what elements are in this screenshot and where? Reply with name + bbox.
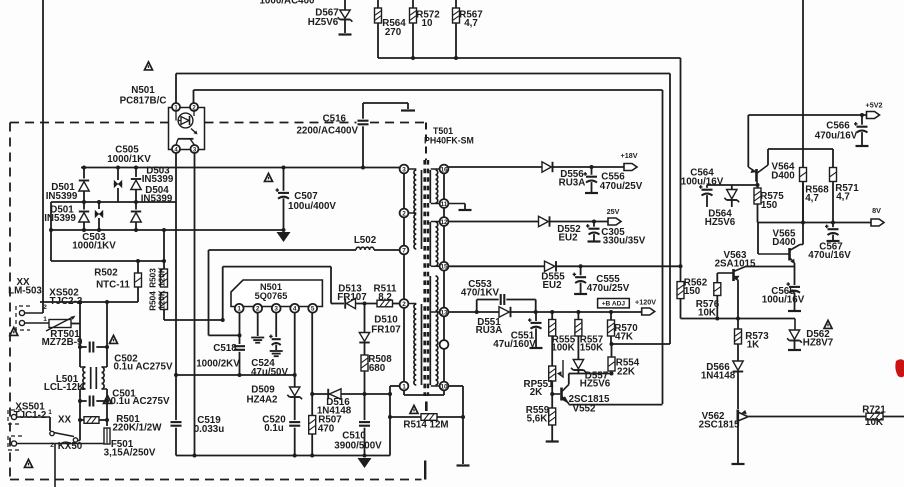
- transformer pin 15: [431, 265, 444, 267]
- diode D504: [131, 213, 141, 222]
- diode D556: [542, 162, 551, 172]
- svg-text:EU2: EU2: [542, 280, 562, 291]
- wire: [176, 374, 295, 376]
- svg-text:HZ5V6: HZ5V6: [580, 379, 611, 390]
- wire: [551, 381, 553, 408]
- wire: [50, 202, 52, 261]
- wire: [412, 23, 414, 58]
- svg-text:47u/160V: 47u/160V: [493, 339, 536, 350]
- svg-text:N501: N501: [131, 85, 155, 96]
- capacitor C524: [272, 338, 281, 340]
- warning triangle: [24, 459, 32, 467]
- svg-text:R503: R503: [149, 268, 158, 288]
- svg-text:R502: R502: [94, 268, 118, 279]
- wire +B line: [448, 311, 476, 313]
- wire: [51, 260, 164, 262]
- svg-text:IN5399: IN5399: [46, 191, 78, 202]
- wire AC node: [51, 201, 176, 203]
- resistor R570: [610, 312, 612, 320]
- resistor R514: [421, 414, 437, 421]
- transformer pin 1: [400, 382, 409, 391]
- resistor R504: [161, 293, 168, 310]
- svg-text:KX50: KX50: [58, 441, 83, 452]
- svg-text:11: 11: [441, 201, 448, 208]
- svg-text:+B ADJ: +B ADJ: [602, 301, 626, 308]
- wire: [54, 444, 56, 487]
- wire opto pin3 down: [194, 153, 196, 456]
- wire: [577, 370, 579, 374]
- wire: [577, 336, 579, 360]
- resistor R567: [453, 8, 460, 23]
- diode D501: [83, 168, 85, 179]
- svg-text:220K/1/2W: 220K/1/2W: [112, 423, 162, 434]
- svg-text:470u/25V: 470u/25V: [587, 283, 630, 294]
- wire: [737, 424, 739, 464]
- svg-text:4,7: 4,7: [836, 192, 850, 203]
- wire: [294, 397, 296, 420]
- wire: [17, 416, 50, 418]
- wire: [363, 102, 408, 104]
- wire 25V line: [448, 221, 538, 223]
- resistor R721: [866, 413, 883, 420]
- terminal +5V2: [867, 112, 880, 119]
- svg-text:3: 3: [274, 306, 278, 313]
- transformer pin 10: [431, 385, 444, 387]
- wire: [356, 303, 378, 305]
- wire below transformer: [390, 385, 400, 387]
- svg-text:150: 150: [761, 200, 778, 211]
- wire loop outer: [208, 250, 210, 335]
- warning triangle: [103, 395, 111, 403]
- capacitor C507: [283, 168, 285, 191]
- wire V563 emitter: [737, 281, 739, 330]
- resistor R573: [735, 329, 742, 344]
- wire: [40, 301, 138, 303]
- svg-text:D400: D400: [772, 237, 796, 248]
- svg-text:T501: T501: [433, 126, 453, 136]
- wire: [71, 323, 80, 325]
- svg-text:C516: C516: [323, 114, 347, 125]
- wire +18V line: [448, 166, 542, 168]
- wire: [163, 230, 165, 269]
- wire pin column left: [403, 169, 405, 386]
- wire primary ground bus: [176, 455, 390, 457]
- svg-text:1000/2KV: 1000/2KV: [196, 359, 240, 370]
- svg-text:MZ72B-9: MZ72B-9: [42, 337, 83, 348]
- svg-text:12: 12: [440, 219, 448, 226]
- warning triangle: [264, 173, 272, 181]
- svg-text:47u/50V: 47u/50V: [251, 367, 289, 378]
- terminal 25V: [608, 218, 621, 225]
- svg-text:1: 1: [43, 316, 47, 323]
- wire: [794, 341, 796, 350]
- svg-text:16: 16: [440, 166, 448, 173]
- svg-text:120K: 120K: [158, 267, 167, 287]
- wire: [746, 266, 795, 268]
- wire +5V2 line: [748, 114, 866, 116]
- resistor R508: [361, 355, 368, 371]
- zener D567: [340, 10, 350, 18]
- svg-text:0.1u: 0.1u: [264, 423, 284, 434]
- svg-text:3: 3: [402, 166, 406, 173]
- wire: [331, 303, 344, 305]
- svg-text:1: 1: [48, 409, 52, 416]
- transistor V565: [788, 248, 791, 261]
- svg-text:HZ4A2: HZ4A2: [246, 395, 278, 406]
- wire: [344, 20, 346, 34]
- svg-text:FR107: FR107: [371, 325, 401, 336]
- wire: [78, 440, 80, 442]
- transformer pin 13: [431, 311, 444, 313]
- capacitor C502: [80, 346, 87, 348]
- svg-text:1K: 1K: [747, 340, 760, 351]
- wire from opto pin2: [193, 90, 195, 103]
- svg-text:2: 2: [402, 210, 406, 217]
- diode D566: [733, 361, 743, 370]
- capacitor C555: [580, 266, 582, 275]
- resistor R503: [161, 269, 168, 287]
- isolation boundary dashed border: [9, 123, 11, 478]
- wire: [551, 425, 553, 441]
- fuse F501: [104, 428, 110, 444]
- wire: [681, 318, 796, 320]
- wire pin5: [311, 313, 313, 394]
- wire right filter rail: [106, 302, 108, 367]
- wire: [83, 191, 85, 210]
- svg-text:150: 150: [684, 286, 701, 297]
- svg-text:RU3A: RU3A: [476, 325, 503, 336]
- svg-text:NTC-11: NTC-11: [96, 280, 130, 291]
- capacitor C305: [593, 222, 595, 227]
- resistor R507: [311, 394, 313, 416]
- capacitor C565: [794, 267, 796, 286]
- svg-text:PH40FK-SM: PH40FK-SM: [424, 136, 474, 146]
- svg-text:0.1u AC275V: 0.1u AC275V: [114, 362, 173, 373]
- wire R721 line: [748, 416, 867, 418]
- svg-text:2SA1015: 2SA1015: [715, 259, 756, 270]
- svg-text:22K: 22K: [617, 367, 635, 378]
- ground near pin11: [448, 203, 465, 205]
- wire pin2: [257, 313, 259, 336]
- wire pin column right: [443, 169, 445, 386]
- wire: [42, 0, 44, 313]
- resistor R562: [680, 266, 682, 281]
- svg-text:10K: 10K: [698, 308, 716, 319]
- wire left filter rail: [79, 302, 81, 367]
- ground: [358, 458, 372, 468]
- warning triangle: [824, 320, 832, 328]
- capacitor C566: [861, 115, 863, 125]
- wire: [802, 182, 804, 245]
- svg-text:2: 2: [43, 304, 47, 311]
- svg-text:5,6K: 5,6K: [527, 414, 548, 425]
- wire: [364, 371, 366, 394]
- line filter L501 LCL-12K: [80, 366, 86, 368]
- red annotation mark: [895, 359, 904, 377]
- svg-text:HZ5V6: HZ5V6: [308, 17, 339, 28]
- wire: [511, 311, 642, 313]
- resistor R502 NTC: [137, 261, 139, 273]
- svg-text:10: 10: [422, 18, 433, 29]
- wire: [17, 443, 107, 445]
- svg-text:D400: D400: [771, 171, 795, 182]
- svg-text:R721: R721: [862, 405, 886, 416]
- transistor V563 2SA1015: [717, 272, 732, 274]
- transformer pin 3: [404, 168, 416, 170]
- svg-text:680: 680: [369, 363, 386, 374]
- wire: [553, 166, 625, 168]
- diode D551: [477, 311, 499, 313]
- wire from opto pin1: [175, 74, 177, 104]
- IC N501 5Q0765: [231, 280, 322, 307]
- wire: [330, 267, 332, 304]
- resistor R564: [375, 8, 382, 23]
- transformer pin 14: [440, 340, 449, 349]
- capacitor C501: [80, 400, 87, 402]
- thermistor RT501: [49, 320, 71, 328]
- wire: [737, 344, 739, 361]
- wire D555 line: [448, 265, 544, 267]
- transistor V562: [736, 410, 739, 425]
- wire V564 base: [707, 184, 758, 186]
- transformer pin 11: [431, 203, 444, 205]
- inductor L502: [356, 247, 374, 250]
- svg-text:100K: 100K: [551, 343, 574, 354]
- optocoupler N501 PC817B/C: [169, 108, 205, 150]
- svg-text:10K: 10K: [865, 417, 883, 428]
- warning triangle: [109, 335, 117, 343]
- resistor R554: [611, 344, 613, 357]
- diode D513: [346, 298, 355, 308]
- warning triangle: [10, 327, 18, 335]
- svg-text:R514 12M: R514 12M: [403, 420, 448, 431]
- transformer secondary winding: [436, 170, 438, 203]
- svg-text:+120V: +120V: [635, 298, 656, 307]
- ground: [339, 33, 352, 35]
- wire: [737, 372, 739, 410]
- svg-text:270: 270: [385, 27, 402, 38]
- svg-text:2: 2: [402, 301, 406, 308]
- svg-text:HZ5V6: HZ5V6: [705, 217, 736, 228]
- svg-text:3,15A/250V: 3,15A/250V: [104, 448, 156, 459]
- svg-text:+5V2: +5V2: [866, 101, 883, 110]
- svg-text:C518: C518: [213, 343, 237, 354]
- warning triangle: [144, 62, 152, 70]
- svg-text:100u/16V: 100u/16V: [681, 177, 724, 188]
- svg-text:470u/25V: 470u/25V: [600, 181, 643, 192]
- svg-text:150K: 150K: [580, 343, 603, 354]
- terminal +120V: [642, 308, 655, 315]
- diode D516: [329, 389, 341, 399]
- diode D552: [539, 216, 549, 226]
- wire main HV rail: [81, 167, 400, 169]
- capacitor C564: [706, 185, 708, 188]
- wire V564 emitter line: [768, 148, 833, 150]
- transformer pin 12: [431, 221, 444, 223]
- wire: [83, 222, 85, 230]
- svg-text:1N4148: 1N4148: [701, 371, 736, 382]
- zener D564: [731, 185, 733, 190]
- svg-text:R504: R504: [149, 291, 158, 311]
- svg-text:4,7: 4,7: [464, 18, 478, 29]
- svg-text:+18V: +18V: [621, 151, 638, 160]
- wire L502 line: [209, 249, 357, 251]
- svg-text:330u/35V: 330u/35V: [603, 236, 646, 247]
- transformer T501 core: [423, 160, 426, 396]
- svg-text:2SC1815: 2SC1815: [699, 420, 740, 431]
- wire: [550, 221, 609, 223]
- svg-text:HZ8V7: HZ8V7: [803, 338, 834, 349]
- capacitor C556: [591, 167, 593, 175]
- resistor R501: [80, 419, 84, 421]
- capacitor C520: [289, 421, 300, 423]
- terminal +18V: [624, 164, 637, 171]
- wire: [757, 204, 759, 223]
- switch KX50: [49, 417, 51, 431]
- svg-text:5Q0765: 5Q0765: [255, 291, 288, 301]
- svg-text:2K: 2K: [530, 387, 543, 398]
- wire V552 emitter: [568, 404, 570, 405]
- wire: [164, 319, 222, 321]
- svg-text:1000/1KV: 1000/1KV: [72, 241, 116, 252]
- svg-text:7: 7: [402, 247, 406, 254]
- +B ADJ box: [598, 299, 630, 308]
- ground: [788, 349, 801, 351]
- wire: [135, 190, 137, 210]
- svg-text:120K: 120K: [158, 290, 167, 310]
- svg-text:15: 15: [440, 264, 448, 271]
- wire: [802, 182, 804, 223]
- wire: [462, 386, 464, 464]
- terminal 8V: [871, 219, 884, 226]
- svg-text:47K: 47K: [615, 332, 633, 343]
- ground: [457, 464, 470, 466]
- wire pin3: [275, 313, 277, 337]
- svg-text:25V: 25V: [607, 207, 620, 216]
- transistor V552: [568, 374, 570, 385]
- ground: [732, 463, 745, 465]
- svg-text:13: 13: [440, 309, 448, 316]
- svg-text:8.2: 8.2: [378, 292, 392, 303]
- wire: [412, 0, 414, 8]
- wire DC- rail: [51, 229, 284, 231]
- wire: [393, 303, 400, 305]
- svg-text:IN5399: IN5399: [44, 213, 76, 224]
- svg-text:TJC1-2: TJC1-2: [14, 410, 47, 421]
- wire: [551, 336, 553, 366]
- zener D557: [573, 360, 583, 369]
- wire opto pin4 down: [175, 153, 177, 375]
- svg-text:LCL-12K: LCL-12K: [44, 382, 84, 393]
- wire: [455, 23, 457, 58]
- svg-text:4,7: 4,7: [805, 193, 819, 204]
- wire: [377, 0, 379, 8]
- wire feedback vertical C: [662, 90, 664, 404]
- wire loop inner: [223, 266, 331, 268]
- ground: [401, 109, 415, 111]
- capacitor C505 spark gap: [117, 168, 119, 181]
- potentiometer RP551: [549, 366, 556, 381]
- wire: [556, 265, 681, 267]
- wire: [163, 310, 165, 321]
- svg-text:8V: 8V: [872, 206, 881, 215]
- svg-text:0.033u: 0.033u: [194, 424, 225, 435]
- capacitor C518: [234, 345, 245, 347]
- svg-text:RU3A: RU3A: [559, 178, 586, 189]
- wire feedback vertical B: [669, 74, 671, 345]
- svg-text:PC817B/C: PC817B/C: [120, 96, 167, 107]
- resistor R559: [549, 408, 556, 425]
- svg-text:470u/16V: 470u/16V: [808, 250, 851, 261]
- resistor R572: [410, 8, 417, 23]
- svg-text:0.1u AC275V: 0.1u AC275V: [111, 396, 170, 407]
- transformer pin 16: [431, 168, 444, 170]
- resistor R557: [577, 312, 579, 320]
- svg-text:100u/16V: 100u/16V: [762, 295, 805, 306]
- wire: [757, 223, 759, 255]
- wire feedback vertical A: [680, 58, 682, 266]
- svg-text:1000/1KV: 1000/1KV: [107, 154, 151, 165]
- transformer pin 2b: [400, 303, 417, 305]
- resistor R511: [377, 300, 393, 307]
- zener D562: [794, 319, 796, 331]
- svg-text:2: 2: [256, 306, 260, 313]
- wire pin1: [239, 313, 241, 344]
- diode D502: [79, 213, 89, 222]
- svg-text:10: 10: [440, 383, 448, 390]
- diode D555: [545, 261, 555, 271]
- svg-text:470/1KV: 470/1KV: [461, 288, 500, 299]
- wire: [364, 343, 366, 356]
- diode D510: [364, 304, 366, 333]
- svg-text:XX: XX: [58, 415, 72, 426]
- capacitor C567: [832, 223, 834, 228]
- svg-text:LM-503: LM-503: [8, 286, 42, 297]
- svg-text:1: 1: [237, 306, 241, 313]
- wire bus: [378, 57, 681, 59]
- svg-text:470u/16V: 470u/16V: [815, 131, 858, 142]
- svg-text:EU2: EU2: [558, 233, 578, 244]
- ground: [546, 440, 559, 442]
- svg-text:2200/AC400V: 2200/AC400V: [296, 126, 358, 137]
- wire: [610, 336, 612, 344]
- svg-text:3900/500V: 3900/500V: [334, 441, 382, 452]
- svg-text:1000/AC400: 1000/AC400: [259, 0, 315, 7]
- wire: [135, 222, 137, 230]
- transformer pin 2: [404, 212, 416, 214]
- transformer primary winding: [414, 170, 416, 249]
- capacitor C553 snubber: [476, 300, 478, 313]
- svg-text:L502: L502: [354, 235, 377, 246]
- warning triangle: [410, 405, 418, 413]
- wire pin4: [294, 313, 296, 387]
- wire D516 line: [312, 393, 390, 395]
- transformer pin 7: [400, 246, 409, 255]
- capacitor C551: [535, 312, 537, 321]
- svg-text:1: 1: [402, 383, 406, 390]
- ground: [277, 232, 291, 242]
- svg-text:4: 4: [293, 306, 297, 313]
- capacitor C510: [364, 394, 366, 420]
- svg-text:FR107: FR107: [337, 292, 367, 303]
- wire 8V rail: [758, 222, 872, 224]
- resistor R555: [551, 312, 553, 320]
- transistor V564: [747, 115, 749, 167]
- diode D503: [135, 168, 137, 178]
- svg-text:IN5399: IN5399: [142, 174, 174, 185]
- wire: [344, 0, 346, 10]
- capacitor C503 spark gap: [98, 202, 100, 209]
